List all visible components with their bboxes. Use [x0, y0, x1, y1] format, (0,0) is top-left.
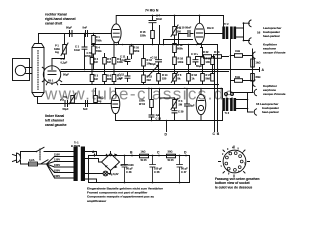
potentiometer P3 2M [173, 27, 177, 36]
wire R15 down [152, 39, 154, 45]
wire Ro3 anode to rail [199, 16, 201, 24]
svg-text:0,2A: 0,2A [29, 158, 35, 162]
tube Ro1 circle [43, 66, 60, 83]
svg-text:800: 800 [107, 77, 112, 81]
connector headphone left (jack) [254, 89, 256, 95]
wire left channel B+ rail y=88 [116, 88, 223, 90]
wire Ro2 anode top [115, 16, 117, 24]
svg-text:240V: 240V [54, 174, 60, 178]
PSU: wire switch to Tr1 primary [44, 151, 74, 153]
resistor R16 [173, 57, 177, 65]
capacitor C32 50uF left input (plates) [65, 101, 68, 107]
PSU: wire plug top lead [21, 152, 37, 157]
socket pin 6 [239, 155, 242, 158]
resistor R33 W25 (horizontal) [167, 154, 176, 158]
svg-text:8µF: 8µF [190, 104, 195, 108]
wire B+ bus upper y=71 [61, 71, 229, 73]
wire Ro4 anode up to rail [115, 89, 117, 95]
svg-text:Rg 6,3V: Rg 6,3V [109, 172, 119, 176]
svg-text:C 26: C 26 [154, 170, 160, 174]
svg-text:R 22: R 22 [203, 50, 209, 54]
wire pickup to input [38, 34, 40, 44]
resistor R21 [201, 74, 205, 82]
wire column x=143 [143, 45, 145, 85]
svg-text:1kΩ: 1kΩ [141, 150, 146, 154]
wire y=80.5 headphone bottom [231, 80, 253, 82]
wire y=120 up to Tr3 [222, 111, 224, 121]
svg-text:7× RG N: 7× RG N [145, 8, 159, 12]
resistor R26 60 ohm (vertical) [251, 74, 255, 82]
tube Ro4 electrodes [113, 101, 118, 108]
motor circle [15, 65, 25, 75]
svg-text:220V: 220V [54, 168, 60, 172]
svg-text:30Ω: 30Ω [168, 150, 173, 154]
wire P2 stub [72, 102, 74, 105]
wire x=252 headphone link [252, 49, 254, 93]
wire column x=91.5 [91, 54, 93, 85]
svg-text:le culot vue de dessous: le culot vue de dessous [215, 185, 252, 189]
capacitor C30 8uF (plates) [185, 104, 190, 106]
svg-text:50 µF: 50 µF [181, 167, 188, 171]
svg-text:Tr 1: Tr 1 [74, 141, 79, 145]
resistor R13 [142, 75, 146, 83]
wire B+ riser left channel x=159 [159, 89, 161, 121]
svg-text:C 47: C 47 [181, 170, 187, 174]
svg-text:0,1µF: 0,1µF [120, 58, 127, 62]
PSU: wire Tr1 secondary to B+ rail [85, 152, 190, 156]
svg-text:1kΩ: 1kΩ [256, 61, 261, 65]
tube Ro1 socket pin stubs [42, 67, 61, 85]
capacitor C16 50uF (plates) [156, 60, 162, 62]
tube Ro1 electrodes [48, 67, 56, 75]
potentiometer P2 1M log [71, 96, 75, 104]
svg-text:50µF: 50µF [63, 73, 69, 77]
connector loudspeaker left (jack) [254, 109, 256, 115]
tube Ro3 output pentode envelope [195, 23, 205, 44]
socket index ticks [219, 146, 250, 177]
svg-text:linker Kanal: linker Kanal [45, 114, 64, 118]
svg-text:left channel: left channel [45, 119, 64, 123]
resistor R30 grid left [94, 96, 98, 103]
PSU: wire Tr1 to bridge left [85, 159, 102, 163]
wire cathode y=47 link [201, 47, 203, 49]
pilot lamp Rg 6.3V [103, 171, 108, 176]
svg-text:2k2: 2k2 [147, 78, 152, 82]
resistor R10 220k [130, 46, 134, 54]
connector loudspeaker right (jack) [249, 20, 251, 27]
wire P3 top to rail [174, 16, 176, 27]
svg-text:W 25: W 25 [141, 158, 148, 162]
transformer Tr1 winding bars [74, 147, 78, 182]
PSU: switch blade bottom [29, 160, 49, 164]
resistor R19 500k [173, 44, 177, 53]
socket pin 8 [238, 166, 241, 169]
PSU ground rail [89, 156, 190, 183]
svg-text:C 7: C 7 [156, 14, 161, 18]
potentiometer P4 2M [173, 100, 177, 109]
PSU: plug pins [13, 155, 17, 162]
capacitor C12 (plates) [125, 72, 130, 82]
svg-text:5k6: 5k6 [206, 76, 211, 80]
svg-text:1µF: 1µF [119, 76, 124, 80]
pickup cartridge body [32, 48, 44, 93]
wire column x=174 lower [174, 65, 176, 85]
connector headphone lower jack [253, 80, 255, 86]
resistor R18 [187, 74, 191, 82]
svg-text:50 µF: 50 µF [126, 167, 133, 171]
wire P3/R19 column x=174 [174, 35, 176, 57]
wire headphone divider feed [231, 39, 248, 93]
PSU: mains plug body [17, 153, 21, 163]
wire Ro1 cathode down [51, 83, 53, 84]
wire Ro4 cathode down and along y=120 [116, 114, 223, 121]
terminal A arrow PSU [94, 154, 96, 155]
svg-text:1M: 1M [94, 77, 98, 81]
svg-text:110V: 110V [54, 152, 60, 156]
pickup stylus upper triangle [32, 44, 44, 48]
tube Ro2 electrodes [113, 30, 119, 38]
wire column x=186.5 [186, 89, 188, 121]
wire column x=113.5 [113, 45, 115, 85]
wire column x=158.5 [158, 45, 160, 85]
wire column x=151.5 [151, 89, 153, 121]
svg-text:C 17+: C 17+ [191, 52, 198, 56]
svg-text:50µF: 50µF [150, 62, 156, 66]
svg-text:R 23: R 23 [214, 50, 220, 54]
svg-text:50µF: 50µF [63, 107, 69, 111]
pickup cartridge dashed axis [37, 51, 39, 90]
wire B+ drop to Tr2 [223, 16, 225, 27]
socket pin 7 [240, 160, 243, 163]
svg-text:rechter Kanal: rechter Kanal [45, 13, 67, 17]
wire Tr3 secondary top [237, 93, 254, 100]
PSU: wire to selector apex [41, 163, 47, 165]
bridge diode 1 [105, 154, 108, 157]
wire secondary link x=243 [243, 23, 245, 40]
PSU: voltage selector fan [47, 157, 55, 179]
capacitor C29 (plates) [172, 111, 177, 113]
svg-text:2M: 2M [177, 29, 181, 33]
resistor R8 100k [112, 58, 116, 65]
socket pin 4 [229, 152, 232, 155]
svg-text:canal droit: canal droit [45, 22, 63, 26]
svg-text:16: 16 [257, 30, 261, 34]
resistor R4 700k [92, 46, 96, 54]
svg-text:P 2: P 2 [60, 98, 64, 102]
frame around motor (framed component) [13, 59, 30, 81]
potentiometer P1 1M log [63, 45, 67, 55]
resistor R22 (horizontal) [204, 55, 212, 59]
tube Ro5 cathode circle [198, 105, 203, 110]
resistor R23 (horizontal) [214, 55, 222, 59]
wire x=178 riser [178, 34, 180, 45]
pickup stylus lower triangle [32, 93, 44, 97]
socket pin 2 [225, 162, 228, 165]
resistor R17 [187, 57, 191, 65]
capacitor C1 10nF [82, 47, 87, 49]
svg-text:700k: 700k [96, 38, 102, 42]
resistor R11 [112, 75, 116, 82]
resistor R24 series top (horizontal) [235, 54, 243, 58]
potentiometer P5 [173, 74, 177, 82]
wire Ro3 cathode pins [198, 44, 202, 48]
socket pin 3 [226, 156, 229, 159]
wire B+ feed to left channel x=214 [214, 57, 216, 132]
svg-text:500k: 500k [177, 46, 183, 50]
svg-text:C 28: C 28 [156, 116, 162, 120]
svg-text:50µF: 50µF [196, 64, 202, 68]
junction dots [152, 15, 154, 17]
svg-text:Tr 2: Tr 2 [224, 22, 229, 26]
wire Tr2 secondary top [237, 23, 250, 28]
svg-text:C 29: C 29 [178, 110, 184, 114]
PSU: wire plug bottom lead to fuse [21, 161, 29, 165]
wire column x=188 [188, 45, 190, 85]
svg-text:51Ω: 51Ω [235, 75, 240, 79]
resistor R14 [157, 74, 161, 82]
tube Ro4 triode envelope [111, 95, 120, 114]
svg-text:5nF: 5nF [83, 107, 88, 111]
wire anode to transformer primary [205, 33, 223, 35]
svg-text:haut-parleur: haut-parleur [263, 34, 281, 38]
resistor R15 220k [151, 31, 155, 39]
tube Ro5 grid electrodes [198, 100, 204, 102]
svg-text:60Ω: 60Ω [256, 75, 261, 79]
svg-text:W 25: W 25 [168, 158, 175, 162]
wire column x=131 [131, 45, 133, 59]
svg-text:Tr 3: Tr 3 [225, 111, 230, 115]
wire Ro5 bottom pin [200, 115, 202, 121]
svg-text:220: 220 [162, 76, 167, 80]
PSU: switch link (dashed) [39, 149, 41, 161]
resistor R2 (column x=91.5) [90, 58, 94, 65]
pot wiper arrow across bus [148, 65, 159, 77]
wire left channel input y=103.3 [39, 103, 112, 105]
svg-text:220k: 220k [140, 33, 146, 37]
node D lead [166, 121, 168, 132]
wire ground bus upper y=69 [61, 69, 253, 71]
resistor R27 series bottom (horizontal) [235, 79, 243, 83]
terminal A right channel [253, 68, 260, 72]
svg-text:50µF: 50µF [66, 26, 72, 30]
svg-text:amplificateur: amplificateur [87, 199, 107, 203]
resistor R29 [211, 74, 215, 82]
transformer Tr3 winding bars [222, 98, 225, 111]
PSU: wire Tr1 heater return [85, 179, 97, 183]
svg-text:B250 C100: B250 C100 [121, 163, 135, 167]
wire secondary link x=247 [247, 93, 249, 113]
terminal A arrowhead PSU [93, 155, 95, 157]
svg-text:canal gauche: canal gauche [45, 123, 67, 127]
svg-text:4700pF: 4700pF [85, 54, 94, 58]
wire top B+ rail right channel [117, 15, 224, 17]
tube Ro5 output pentode left envelope [196, 94, 206, 114]
svg-text:220k: 220k [134, 49, 140, 53]
resistor R1 700k [92, 36, 96, 44]
svg-text:10nF: 10nF [74, 48, 80, 52]
svg-text:C 48: C 48 [126, 170, 132, 174]
PSU: fuse [29, 162, 38, 166]
svg-text:100 µF: 100 µF [154, 167, 163, 171]
svg-text:1M: 1M [94, 60, 98, 64]
connector headphone right (jack) [249, 38, 251, 45]
connector headphone upper jack [253, 52, 255, 58]
wire Tr3 secondary bottom [237, 109, 254, 113]
svg-text:log: log [98, 99, 102, 103]
wire column x=202 [202, 48, 204, 85]
wire pickup lower to left channel input [37, 97, 39, 104]
capacitor C7 50nF from rail [149, 16, 156, 31]
wire P4 column bottom [174, 108, 176, 121]
resistor R31 220k W10 [150, 100, 154, 108]
socket pin 5 [234, 152, 237, 155]
wire Ro1 anode up to P1 [52, 54, 65, 66]
capacitor C17 50uF (plates) [193, 57, 198, 65]
PSU: switch blade top [37, 147, 45, 151]
svg-text:right-hand channel: right-hand channel [45, 17, 76, 21]
socket pin 1 [227, 167, 230, 170]
wire grid bus y=44.5 [92, 44, 218, 46]
capacitor C33 5nF left input (plates) [86, 101, 88, 107]
capacitor C11 (plates) [125, 57, 130, 65]
resistor R25 1k (vertical) [251, 59, 255, 67]
wire P4 feed y=97.5 [160, 98, 175, 100]
wire motor to cartridge (2 leads) [26, 68, 32, 74]
smoothing cap C48 50uF [122, 156, 128, 183]
capacitor C31 5nF input (plates) [86, 31, 88, 37]
capacitor C30 50uF input (plates) [70, 31, 73, 37]
capacitor C28 4uF (plates) [149, 115, 154, 117]
bridge diode 4 [114, 165, 117, 168]
resistor R20 [201, 57, 205, 65]
svg-text:2M: 2M [179, 102, 183, 106]
smoothing cap C26 100uF [150, 156, 156, 183]
bridge diode arms [108, 152, 111, 174]
wire Tr3 primary feed [222, 89, 224, 99]
svg-text:150V: 150V [54, 163, 60, 167]
svg-text:0,1µF: 0,1µF [61, 60, 68, 64]
svg-text:41Ω: 41Ω [235, 49, 240, 53]
resistor R3 [90, 75, 94, 82]
svg-text:RG N: RG N [207, 26, 214, 30]
bridge diode 3 [105, 165, 108, 167]
wire ground rail y=84.5 [61, 84, 219, 86]
bridge rectifier B250C100 diamond [102, 154, 120, 171]
resistor R12 [142, 59, 146, 67]
wire C1 column x=84 [84, 34, 86, 70]
svg-text:700k: 700k [96, 49, 102, 53]
resistor R28 [211, 58, 215, 65]
svg-text:100: 100 [206, 60, 211, 64]
long B+ riser x=159 lower link [159, 26, 161, 45]
wire input right channel y=33 [39, 33, 112, 35]
transformer Tr2 winding bars [222, 27, 225, 40]
svg-text:haut-parleur: haut-parleur [262, 110, 280, 114]
terminal circles above Tr3 [225, 93, 228, 96]
svg-text:5nF: 5nF [83, 26, 88, 30]
wire column x=93 [93, 34, 95, 70]
svg-text:casque d'écoute: casque d'écoute [263, 51, 286, 55]
socket pin 9 [234, 169, 237, 172]
svg-text:125V: 125V [54, 157, 60, 161]
resistor R9 [103, 75, 107, 82]
svg-text:50nF: 50nF [156, 17, 162, 21]
svg-text:100k: 100k [178, 60, 184, 64]
wire B+ feed x=217.5 [217, 45, 219, 132]
bridge diode 2 [114, 154, 117, 157]
PSU: wire Tr1 heater winding to lamp [85, 173, 103, 175]
svg-text:Rö 1: Rö 1 [48, 80, 54, 83]
socket outline (bottom view) [223, 150, 246, 173]
resistor R32 W25 (horizontal) [140, 154, 149, 158]
svg-text:casque d'écoute: casque d'écoute [263, 92, 286, 96]
wire column x=104 [104, 54, 106, 85]
wire Tr2 secondary bottom [237, 37, 250, 41]
wire Ro2 pins down [114, 42, 119, 44]
wire column x=212 [212, 65, 214, 74]
tube Ro3 electrodes [196, 29, 202, 37]
tube Ro2 triode envelope [111, 24, 121, 43]
smoothing cap C47 50uF [177, 156, 183, 183]
svg-text:log: log [55, 50, 59, 54]
capacitor C10 50nF coupling [179, 31, 194, 37]
wire P1 top stub [64, 34, 66, 45]
wire x=163 riser [163, 40, 165, 45]
svg-text:1M: 1M [107, 60, 111, 64]
PSU: selector tap leads [55, 157, 74, 179]
svg-text:10k: 10k [147, 61, 152, 65]
wire y=55 headphone top [231, 55, 253, 57]
svg-text:C 10 50nF: C 10 50nF [179, 26, 192, 30]
svg-text:B 78/78: B 78/78 [71, 144, 81, 148]
wire screen rail y=39 [164, 39, 193, 41]
wire column x=95 [95, 89, 97, 104]
tube Ro5 anode dot stub [200, 89, 202, 95]
resistor R7 [103, 58, 107, 65]
svg-text:W 10: W 10 [139, 102, 146, 106]
wire y=56 output cathode rail [197, 56, 229, 58]
